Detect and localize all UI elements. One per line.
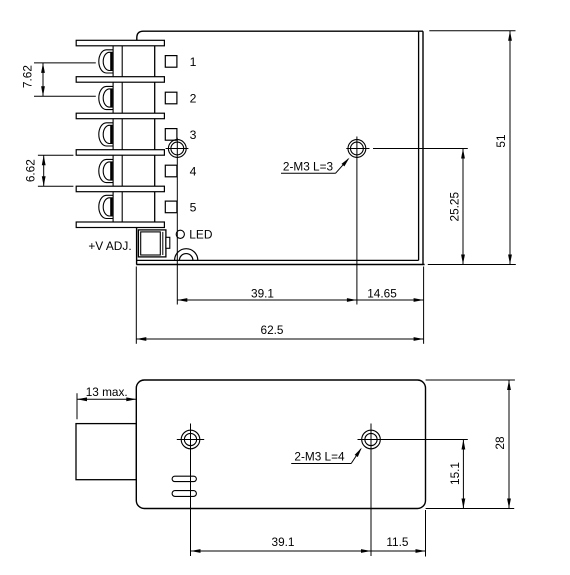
svg-text:7.62: 7.62	[21, 65, 35, 88]
terminal block separator bar 5	[76, 186, 164, 192]
svg-text:4: 4	[190, 165, 197, 179]
terminal block separator bar 3	[76, 113, 164, 119]
svg-text:3: 3	[190, 128, 197, 142]
vent slot 2	[172, 491, 196, 497]
svg-text:25.25: 25.25	[448, 192, 462, 222]
svg-text:51: 51	[494, 134, 508, 147]
dimension 28	[426, 379, 515, 381]
svg-text:39.1: 39.1	[272, 535, 295, 549]
svg-text:LED: LED	[189, 228, 213, 242]
dimension 39.1 bottom view	[191, 550, 372, 552]
bottom view hole crosshairs/extensions	[177, 439, 204, 441]
hole crosshair + extension lines	[166, 148, 189, 150]
dimension 7.62	[34, 62, 96, 64]
svg-text:14.65: 14.65	[367, 286, 397, 300]
terminal screw 4	[99, 159, 113, 182]
LED indicator circle	[176, 230, 184, 238]
svg-text:5: 5	[190, 201, 197, 215]
svg-text:62.5: 62.5	[261, 323, 284, 337]
svg-text:6.62: 6.62	[24, 159, 38, 182]
top view: case right wall (double line)	[418, 31, 420, 260]
pin square 4	[165, 165, 177, 177]
terminal block separator bar 6	[76, 222, 164, 228]
svg-text:11.5: 11.5	[386, 535, 409, 549]
svg-text:2: 2	[190, 92, 197, 106]
terminal screw 5	[99, 195, 113, 218]
potentiometer +V ADJ	[138, 230, 166, 257]
terminal block separator bar 4	[76, 150, 164, 156]
bottom view: case outline	[136, 380, 425, 509]
svg-text:2-M3 L=4: 2-M3 L=4	[294, 450, 345, 464]
mounting hole bottom view right	[362, 430, 381, 449]
svg-text:15.1: 15.1	[448, 462, 462, 485]
mounting hole top view right	[348, 140, 366, 158]
pin square 2	[165, 92, 177, 104]
wire entry grommet arcs	[175, 249, 198, 261]
dimension 15.1	[462, 440, 464, 509]
dimension 25.25	[462, 149, 464, 265]
pin square 1	[165, 56, 177, 68]
svg-text:13 max.: 13 max.	[86, 385, 128, 399]
terminal block column lines	[112, 46, 114, 77]
terminal screw 2	[99, 86, 113, 109]
terminal screw 3	[99, 123, 113, 146]
terminal block separator bar 2	[76, 77, 164, 83]
mounting hole bottom view left	[181, 430, 200, 449]
dimension 14.65	[357, 299, 424, 301]
top view: case left edge lower segment	[136, 228, 138, 265]
vent slot 1	[172, 476, 196, 481]
pin square 5	[165, 201, 177, 213]
dimension 6.62	[38, 154, 74, 156]
svg-text:1: 1	[190, 55, 197, 69]
svg-text:28: 28	[493, 436, 507, 450]
terminal block separator bar 1	[76, 40, 164, 46]
dimension 51	[429, 30, 515, 32]
svg-text:39.1: 39.1	[251, 286, 274, 300]
bottom view: terminal block protrusion	[76, 424, 136, 480]
dimension 39.1 top view	[177, 299, 357, 301]
mounting hole top view left	[168, 140, 186, 158]
pin square 3	[165, 129, 177, 141]
svg-text:2-M3 L=3: 2-M3 L=3	[283, 159, 334, 173]
dimension 11.5	[371, 550, 426, 552]
terminal screw 1	[99, 50, 113, 73]
top view: case bottom wall (double line)	[137, 259, 419, 261]
right edge extension down	[425, 510, 427, 557]
dimension 62.5	[135, 267, 137, 344]
top view: PSU case outline	[137, 31, 423, 40]
svg-text:+V ADJ.: +V ADJ.	[88, 239, 131, 253]
dimension 13 max.	[76, 393, 78, 419]
